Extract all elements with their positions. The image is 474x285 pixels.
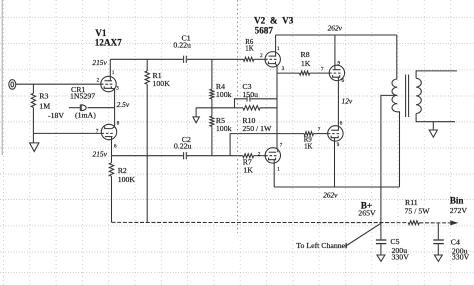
svg-text:2.5v: 2.5v: [117, 100, 130, 109]
resistor R10: [243, 106, 260, 110]
wire V1b plate lead down: [111, 140, 113, 156]
triode V2a: [265, 52, 280, 67]
wire R6 to V2a grid: [254, 58, 265, 60]
capacitor C1 0.22u: [183, 56, 185, 63]
svg-text:-18V: -18V: [48, 111, 64, 120]
wire primary bottom riser: [397, 112, 399, 187]
grid dotted columns: [3, 0, 5, 285]
resistor R8: [300, 71, 310, 75]
wire V2a plate riser: [275, 35, 277, 52]
wire R10 right lead: [260, 107, 277, 109]
svg-text:215v: 215v: [93, 149, 108, 158]
wire secondary bottom lead: [416, 114, 455, 122]
wire R10 left lead: [235, 107, 244, 109]
wire C4 bottom lead: [437, 244, 439, 255]
svg-text:Bin: Bin: [450, 196, 464, 206]
wire V3b cathode down: [334, 141, 336, 187]
wire ground stub: [195, 108, 197, 117]
transformer T1 primary: [392, 79, 397, 112]
svg-text:(1mA): (1mA): [75, 110, 96, 119]
svg-text:100K: 100K: [118, 175, 136, 184]
wire C4 top lead: [437, 223, 439, 239]
resistor R11: [408, 221, 419, 225]
svg-text:R3: R3: [39, 92, 48, 101]
svg-text:75 / 5W: 75 / 5W: [405, 207, 431, 216]
wire R3 bottom to ground: [32, 107, 34, 142]
wire V1a plate lead: [109, 59, 111, 76]
wire B+ rail right (dashed): [419, 222, 450, 224]
ground (R3): [30, 143, 39, 152]
svg-text:12v: 12v: [342, 97, 353, 106]
capacitor C2 0.22u: [183, 152, 185, 159]
wire R4 to R5: [211, 99, 213, 116]
wire V2a cathode node vertical: [276, 66, 278, 149]
wire R2 bottom to B+ rail: [111, 176, 113, 222]
svg-text:0.22u: 0.22u: [174, 142, 192, 151]
svg-text:1K: 1K: [245, 45, 253, 52]
wire R3 top lead: [32, 84, 34, 93]
svg-text:R11: R11: [405, 198, 418, 207]
wire C5 bottom lead: [380, 244, 382, 255]
wire R1 bottom to B+ rail: [146, 84, 148, 222]
svg-text:150u: 150u: [242, 90, 258, 99]
svg-text:1K: 1K: [304, 143, 312, 150]
svg-text:215v: 215v: [92, 58, 107, 67]
svg-text:100k: 100k: [216, 90, 232, 99]
wire secondary top lead: [416, 71, 457, 78]
wire C5 top lead: [380, 223, 382, 240]
svg-text:100k: 100k: [216, 124, 232, 133]
wire ground bus to C3/R10 node: [196, 107, 234, 109]
resistor R4: [210, 89, 214, 99]
wire V2b cathode down: [273, 162, 275, 187]
svg-text:1M: 1M: [39, 102, 50, 111]
svg-text:5687: 5687: [255, 26, 274, 36]
wire CR1 to cathode node: [88, 107, 115, 109]
wire R8 to V3a grid: [310, 72, 330, 74]
capacitor C3 150u: [246, 96, 248, 101]
svg-text:330V: 330V: [392, 253, 410, 262]
arrow Bin: [450, 220, 458, 225]
svg-text:C5: C5: [390, 237, 399, 246]
diode CR1 1N5297: [79, 105, 81, 111]
wire R4 top lead: [211, 59, 213, 89]
wire plate node to C1: [110, 58, 183, 60]
wire cathode rail 262v: [274, 186, 399, 188]
svg-text:R2: R2: [118, 166, 127, 175]
svg-text:1K: 1K: [243, 166, 253, 175]
scan edge artifact line: [1, 0, 3, 155]
resistor R2: [109, 163, 113, 177]
channel separator dashed line: [237, 0, 239, 233]
svg-text:250 / 1W: 250 / 1W: [242, 124, 272, 133]
input jack J1: [9, 80, 16, 90]
svg-text:1K: 1K: [301, 59, 311, 68]
svg-text:262v: 262v: [328, 24, 343, 33]
svg-text:272V: 272V: [450, 206, 468, 215]
svg-text:To Left Channel: To Left Channel: [296, 241, 348, 250]
wire secondary ground stub: [432, 122, 434, 130]
svg-text:100K: 100K: [153, 79, 171, 88]
wire primary center tap: [381, 95, 397, 222]
svg-text:330V: 330V: [452, 253, 470, 262]
wire C3 left riser: [235, 99, 247, 108]
resistor R5: [210, 116, 214, 126]
triode V3a: [329, 65, 344, 80]
wire primary top lead: [396, 35, 398, 79]
wire V1a cathode to V1b top: [114, 89, 116, 127]
ground (secondary): [429, 130, 437, 137]
wire 262v plate rail: [276, 34, 397, 36]
wire V3a cathode to V3b plate: [337, 80, 339, 126]
ground (C5): [377, 255, 385, 261]
wire C2 to R7: [187, 155, 243, 157]
wire R2 top lead: [111, 156, 113, 163]
resistor R6: [243, 57, 253, 61]
wire node to R8: [277, 72, 300, 74]
wire R5 bottom to C2 node: [211, 126, 213, 155]
triode V1b: [101, 124, 116, 139]
wire R7 to V2b grid: [254, 155, 265, 157]
ground (C4): [434, 255, 442, 261]
wire input to V1a grid: [16, 83, 101, 85]
triode V3b: [328, 126, 343, 141]
svg-text:R8: R8: [301, 50, 310, 59]
resistor R9: [304, 132, 314, 136]
svg-text:V2 & V3: V2 & V3: [254, 16, 294, 26]
svg-text:V1: V1: [95, 28, 107, 38]
svg-text:0.22u: 0.22u: [173, 41, 191, 50]
ground (divider): [193, 117, 200, 123]
capacitor C4: [433, 239, 444, 241]
wire V3a plate riser: [334, 35, 336, 66]
svg-text:262v: 262v: [323, 190, 338, 199]
wire R9 to V3b grid: [314, 133, 328, 135]
transformer T1 secondary: [416, 78, 421, 113]
capacitor C5: [376, 239, 387, 241]
wire V1b plate node to C2: [112, 155, 183, 157]
transformer core: [405, 75, 407, 118]
wire R1 top lead: [146, 59, 148, 71]
svg-text:1N5297: 1N5297: [70, 92, 95, 101]
triode V1a: [101, 76, 116, 91]
triode V2b: [265, 148, 280, 163]
resistor R1: [145, 71, 149, 84]
resistor R7: [243, 154, 254, 158]
wire to left channel pointer: [345, 223, 381, 246]
wire -18V lead to CR1: [69, 107, 80, 109]
wire C1 to R6: [187, 58, 243, 60]
svg-text:12AX7: 12AX7: [95, 38, 122, 48]
wire C3 right lead: [251, 98, 277, 100]
wire node to V1b grid: [33, 132, 101, 134]
svg-text:265V: 265V: [358, 209, 376, 218]
wire lower rail to R9: [230, 134, 304, 156]
svg-text:C4: C4: [451, 238, 460, 247]
resistor R3: [31, 93, 35, 107]
wire B+ rail (dashed): [112, 221, 409, 223]
grid dotted rows: [0, 16, 474, 18]
